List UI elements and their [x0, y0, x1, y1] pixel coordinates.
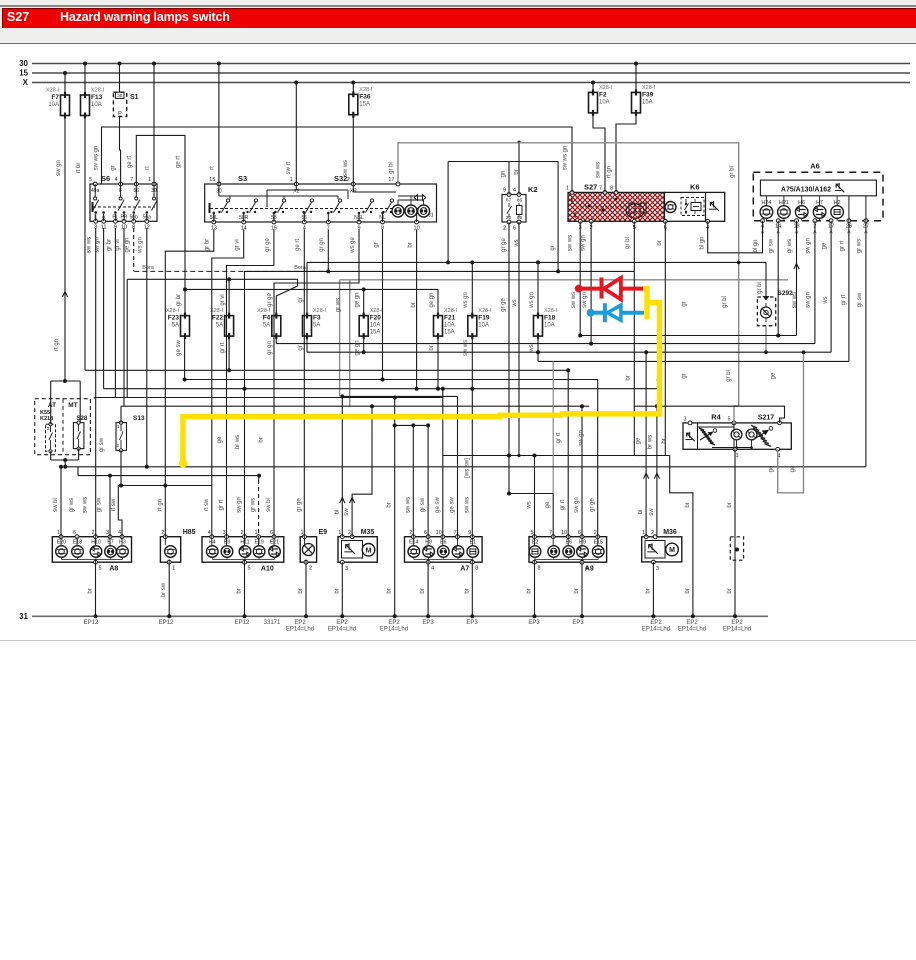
svg-text:ge: ge — [769, 465, 775, 472]
svg-text:1: 1 — [117, 424, 120, 429]
svg-text:br: br — [411, 302, 417, 307]
svg-text:6: 6 — [424, 530, 427, 536]
svg-text:ge gn: ge gn — [429, 292, 435, 307]
svg-text:br: br — [259, 437, 265, 442]
svg-text:3: 3 — [222, 530, 225, 536]
svg-text:ge: ge — [822, 242, 828, 249]
svg-text:M35: M35 — [361, 529, 375, 536]
svg-text:EP3: EP3 — [466, 620, 478, 626]
svg-text:F23: F23 — [168, 315, 180, 322]
svg-text:ws gn: ws gn — [529, 292, 535, 309]
svg-text:2: 2 — [91, 530, 94, 536]
svg-text:30: 30 — [19, 59, 28, 68]
svg-text:EP14=Lhd: EP14=Lhd — [380, 627, 408, 633]
svg-text:P: P — [118, 111, 122, 117]
svg-text:EP2: EP2 — [686, 620, 698, 626]
svg-text:bl gn: bl gn — [700, 236, 706, 249]
svg-text:sw: sw — [344, 508, 350, 516]
svg-text:sw: sw — [649, 508, 655, 516]
svg-text:EP3: EP3 — [528, 620, 540, 626]
svg-text:rt br: rt br — [76, 163, 82, 174]
svg-text:sw rt: sw rt — [286, 161, 292, 174]
svg-text:sw ws gn: sw ws gn — [563, 146, 569, 171]
svg-text:gr ws: gr ws — [69, 498, 75, 512]
svg-text:10: 10 — [561, 530, 567, 536]
svg-text:2: 2 — [503, 226, 506, 232]
svg-text:E15: E15 — [594, 540, 603, 546]
svg-text:sw gn: sw gn — [805, 238, 811, 254]
svg-text:2: 2 — [347, 177, 350, 183]
svg-text:EP14=Lhd: EP14=Lhd — [328, 627, 356, 633]
svg-text:M: M — [669, 547, 675, 554]
svg-text:ge rt: ge rt — [176, 156, 182, 168]
svg-text:sw ws: sw ws — [82, 497, 88, 513]
svg-text:A6: A6 — [810, 162, 820, 171]
svg-text:2: 2 — [348, 530, 351, 536]
svg-text:87: 87 — [506, 198, 512, 204]
svg-text:gr ge: gr ge — [501, 298, 507, 312]
svg-text:X28-I: X28-I — [46, 88, 60, 94]
svg-text:33171: 33171 — [264, 620, 281, 626]
svg-text:15A: 15A — [370, 330, 381, 336]
svg-text:X28-I: X28-I — [370, 308, 384, 314]
svg-text:br: br — [645, 588, 651, 593]
svg-text:gr: gr — [298, 345, 304, 350]
svg-text:gr bl: gr bl — [722, 296, 728, 308]
svg-text:gn: gn — [501, 171, 507, 178]
svg-text:4: 4 — [115, 177, 118, 183]
svg-text:sw ws: sw ws — [343, 160, 349, 176]
svg-text:31: 31 — [428, 213, 434, 219]
svg-text:Bora: Bora — [294, 265, 307, 271]
svg-text:EP12: EP12 — [159, 620, 174, 626]
svg-text:br: br — [685, 588, 691, 593]
svg-text:2: 2 — [651, 530, 654, 536]
svg-text:5: 5 — [99, 566, 102, 572]
svg-text:gr sw: gr sw — [769, 238, 775, 253]
svg-text:sw ws: sw ws — [87, 237, 93, 253]
svg-text:sw gn: sw gn — [237, 497, 243, 513]
svg-text:10A: 10A — [599, 99, 610, 105]
svg-text:gr br: gr br — [205, 239, 211, 251]
svg-text:15: 15 — [19, 69, 28, 78]
svg-text:ws: ws — [514, 239, 520, 247]
svg-text:A7: A7 — [460, 566, 469, 573]
svg-text:9: 9 — [503, 188, 506, 194]
svg-text:2: 2 — [161, 530, 164, 536]
svg-text:gr: gr — [550, 245, 556, 250]
svg-text:sw bl: sw bl — [266, 498, 272, 512]
svg-text:EP14=Lhd: EP14=Lhd — [642, 627, 670, 633]
svg-text:ws: ws — [823, 296, 829, 304]
svg-text:H4: H4 — [209, 540, 216, 546]
svg-text:ge: ge — [217, 436, 223, 443]
svg-text:br: br — [685, 502, 691, 507]
svg-text:ge: ge — [636, 437, 642, 444]
svg-text:9: 9 — [468, 530, 471, 536]
svg-text:gr vi: gr vi — [220, 294, 226, 305]
svg-text:sw gn: sw gn — [582, 292, 588, 308]
svg-text:1: 1 — [148, 177, 151, 183]
svg-text:br: br — [237, 588, 243, 593]
svg-text:10A: 10A — [91, 102, 102, 108]
svg-text:rt: rt — [145, 166, 151, 170]
svg-text:4: 4 — [431, 566, 434, 572]
svg-text:M36: M36 — [663, 529, 677, 536]
svg-text:gr sw: gr sw — [857, 292, 863, 307]
svg-text:rt sw: rt sw — [204, 498, 210, 511]
svg-text:br: br — [334, 588, 340, 593]
svg-text:ws gn: ws gn — [138, 237, 144, 254]
svg-text:gr br: gr br — [176, 294, 182, 306]
svg-text:br: br — [625, 375, 631, 380]
svg-text:gr sw: gr sw — [97, 497, 103, 512]
svg-text:gr bl: gr bl — [389, 162, 395, 174]
svg-text:gr ws: gr ws — [787, 239, 793, 253]
svg-text:5A: 5A — [313, 323, 320, 329]
svg-text:ws: ws — [529, 344, 535, 352]
svg-text:gr sw: gr sw — [99, 437, 105, 452]
svg-text:8: 8 — [610, 186, 613, 192]
svg-text:sw ws: sw ws — [792, 292, 798, 308]
svg-text:K6: K6 — [690, 183, 700, 192]
svg-text:gr ge: gr ge — [501, 238, 507, 252]
svg-text:br: br — [387, 588, 393, 593]
svg-text:br: br — [387, 502, 393, 507]
svg-text:H3: H3 — [119, 540, 126, 546]
svg-text:MT: MT — [68, 402, 77, 409]
svg-text:10A: 10A — [544, 323, 555, 329]
svg-text:3: 3 — [345, 566, 348, 572]
svg-text:sw ws: sw ws — [596, 162, 602, 178]
svg-text:7: 7 — [549, 530, 552, 536]
svg-text:2: 2 — [117, 443, 120, 448]
svg-text:sw ws: sw ws — [571, 292, 577, 308]
svg-text:E2: E2 — [532, 540, 538, 546]
svg-text:bl: bl — [638, 510, 644, 515]
svg-text:sw gn: sw gn — [574, 497, 580, 513]
svg-text:6: 6 — [73, 530, 76, 536]
svg-text:S13: S13 — [133, 415, 145, 422]
svg-text:EP3: EP3 — [572, 620, 584, 626]
svg-text:gr sw: gr sw — [420, 497, 426, 512]
svg-text:ws: ws — [527, 501, 533, 509]
svg-text:gr rt: gr rt — [841, 294, 847, 305]
svg-text:ge sw: ge sw — [435, 497, 441, 513]
svg-text:10A: 10A — [48, 102, 59, 108]
svg-text:S27: S27 — [584, 183, 597, 192]
svg-text:sw ws gn: sw ws gn — [94, 146, 100, 171]
svg-text:F19: F19 — [478, 315, 490, 322]
svg-text:X28-I: X28-I — [257, 308, 271, 314]
svg-text:gr: gr — [681, 373, 687, 378]
svg-text:br: br — [574, 588, 580, 593]
svg-text:F20: F20 — [370, 315, 382, 322]
svg-text:EP2: EP2 — [336, 620, 348, 626]
svg-text:EP2: EP2 — [388, 620, 400, 626]
svg-text:F7: F7 — [51, 94, 59, 101]
svg-text:br: br — [420, 588, 426, 593]
svg-text:gr ws: gr ws — [856, 239, 862, 253]
svg-text:H8: H8 — [425, 540, 432, 546]
svg-text:1: 1 — [338, 530, 341, 536]
svg-text:17: 17 — [388, 177, 394, 183]
svg-text:3: 3 — [106, 530, 109, 536]
svg-text:gr ge: gr ge — [590, 498, 596, 512]
svg-text:sw gn: sw gn — [578, 430, 584, 446]
svg-text:K2: K2 — [528, 185, 538, 194]
svg-text:H10: H10 — [91, 540, 101, 546]
svg-text:E18: E18 — [73, 540, 82, 546]
svg-text:10A: 10A — [370, 323, 381, 329]
svg-text:31: 31 — [19, 612, 28, 621]
svg-text:F4: F4 — [263, 315, 271, 322]
svg-text:3: 3 — [683, 417, 686, 423]
svg-text:br: br — [527, 588, 533, 593]
svg-text:2: 2 — [594, 530, 597, 536]
svg-text:A10: A10 — [261, 566, 274, 573]
svg-text:1: 1 — [642, 530, 645, 536]
svg-text:F39: F39 — [642, 91, 654, 98]
svg-text:5A: 5A — [263, 323, 270, 329]
svg-text:br: br — [514, 169, 520, 174]
svg-text:br: br — [88, 588, 94, 593]
svg-text:5: 5 — [248, 566, 251, 572]
svg-text:sw ws: sw ws — [463, 340, 469, 356]
svg-text:Bora: Bora — [142, 265, 155, 271]
svg-text:gr ws: gr ws — [336, 298, 342, 312]
svg-text:4: 4 — [118, 530, 121, 536]
svg-text:E20: E20 — [57, 540, 66, 546]
svg-text:1: 1 — [300, 530, 303, 536]
svg-text:ws gn: ws gn — [463, 292, 469, 309]
svg-text:8: 8 — [475, 566, 478, 572]
svg-text:AT: AT — [48, 402, 56, 409]
svg-text:br sw: br sw — [161, 582, 167, 597]
svg-text:6: 6 — [513, 226, 516, 232]
svg-text:X28-I: X28-I — [359, 87, 373, 93]
svg-text:5A: 5A — [172, 323, 179, 329]
svg-text:rt gn: rt gn — [54, 339, 60, 351]
svg-text:A8: A8 — [109, 566, 118, 573]
svg-text:5: 5 — [89, 177, 92, 183]
svg-text:F3: F3 — [313, 315, 321, 322]
svg-text:10A: 10A — [444, 323, 455, 329]
svg-text:8: 8 — [538, 566, 541, 572]
svg-text:4: 4 — [513, 188, 516, 194]
svg-text:EP12: EP12 — [235, 620, 250, 626]
svg-text:X28-I: X28-I — [599, 85, 613, 91]
svg-text:F36: F36 — [359, 93, 371, 100]
svg-text:rt: rt — [209, 166, 215, 170]
svg-text:ge: ge — [545, 501, 551, 508]
svg-text:ge gn: ge gn — [355, 292, 361, 307]
svg-text:ge gn: ge gn — [125, 237, 131, 252]
svg-text:sw gn: sw gn — [806, 292, 812, 308]
svg-text:7: 7 — [130, 177, 133, 183]
svg-text:X28-I: X28-I — [478, 308, 492, 314]
svg-text:rt gn: rt gn — [607, 166, 613, 178]
svg-text:gr bl: gr bl — [625, 237, 631, 249]
svg-text:gr bl: gr bl — [730, 166, 736, 178]
svg-text:E7: E7 — [107, 540, 113, 546]
svg-text:A75/A130/A162: A75/A130/A162 — [781, 186, 831, 193]
svg-text:S3: S3 — [238, 174, 247, 183]
svg-text:EP14=Lhd: EP14=Lhd — [723, 627, 751, 633]
svg-text:EP2: EP2 — [650, 620, 662, 626]
svg-text:5: 5 — [530, 530, 533, 536]
svg-text:br: br — [662, 438, 668, 443]
svg-text:sw gn: sw gn — [56, 160, 62, 176]
svg-text:1: 1 — [255, 530, 258, 536]
svg-text:rt gn: rt gn — [157, 499, 163, 511]
svg-text:gr bl: gr bl — [726, 370, 732, 382]
svg-text:F21: F21 — [444, 315, 456, 322]
svg-text:F22: F22 — [212, 315, 224, 322]
svg-text:gr bl: gr bl — [757, 282, 763, 294]
svg-text:A9: A9 — [585, 566, 594, 573]
svg-text:5A: 5A — [216, 323, 223, 329]
svg-text:EP14=Lhd: EP14=Lhd — [678, 627, 706, 633]
svg-text:5: 5 — [727, 417, 730, 423]
svg-text:ge: ge — [771, 372, 777, 379]
svg-text:1: 1 — [290, 177, 293, 183]
svg-text:gr rt: gr rt — [219, 499, 225, 510]
svg-text:gr rt: gr rt — [556, 432, 562, 443]
svg-text:X28-I: X28-I — [642, 85, 656, 91]
svg-text:br: br — [464, 588, 470, 593]
svg-text:sw gn: sw gn — [580, 235, 586, 251]
svg-text:S217: S217 — [758, 415, 774, 422]
svg-text:15A: 15A — [642, 99, 653, 105]
svg-text:br: br — [727, 502, 733, 507]
svg-text:sw gn: sw gn — [95, 237, 101, 253]
svg-text:gr ge: gr ge — [265, 238, 271, 252]
svg-text:E6: E6 — [440, 540, 446, 546]
svg-text:E6: E6 — [566, 540, 572, 546]
svg-text:2: 2 — [409, 530, 412, 536]
svg-text:E1: E1 — [470, 540, 476, 546]
svg-text:sw ws: sw ws — [405, 497, 411, 513]
svg-text:15A: 15A — [359, 101, 370, 107]
svg-text:ws ge: ws ge — [350, 237, 356, 254]
svg-text:ws: ws — [512, 299, 518, 307]
svg-text:[ws sw]: [ws sw] — [464, 458, 470, 478]
svg-text:EP2: EP2 — [294, 620, 306, 626]
svg-text:br: br — [727, 588, 733, 593]
svg-text:br: br — [429, 345, 435, 350]
svg-text:ge sw: ge sw — [176, 340, 182, 356]
svg-text:1: 1 — [735, 453, 738, 459]
svg-text:gr gn: gr gn — [267, 341, 273, 355]
svg-text:X: X — [23, 78, 29, 87]
svg-text:S292: S292 — [778, 290, 794, 297]
svg-text:X28-I: X28-I — [313, 308, 327, 314]
svg-text:1: 1 — [57, 530, 60, 536]
svg-text:br: br — [408, 242, 414, 247]
svg-text:4: 4 — [208, 530, 211, 536]
svg-text:ge sw: ge sw — [450, 497, 456, 513]
svg-text:15A: 15A — [444, 330, 455, 336]
svg-text:gr ws: gr ws — [251, 498, 257, 512]
svg-text:bl gn: bl gn — [753, 239, 759, 252]
svg-text:gr: gr — [681, 301, 687, 306]
svg-text:E21: E21 — [270, 540, 279, 546]
svg-text:F18: F18 — [544, 315, 556, 322]
svg-text:gr rt: gr rt — [220, 342, 226, 353]
svg-text:ge rt: ge rt — [127, 156, 133, 168]
svg-text:E9: E9 — [319, 529, 328, 536]
svg-text:E19: E19 — [254, 540, 263, 546]
svg-text:X28-I: X28-I — [91, 88, 105, 94]
svg-text:S1: S1 — [130, 94, 139, 101]
svg-text:gr rt: gr rt — [560, 499, 566, 510]
svg-text:E14: E14 — [409, 540, 418, 546]
svg-text:H85: H85 — [183, 529, 196, 536]
svg-text:gr gn: gr gn — [319, 238, 325, 252]
svg-text:ge rt: ge rt — [295, 239, 301, 251]
svg-text:F2: F2 — [599, 91, 607, 98]
svg-text:gr: gr — [373, 242, 379, 247]
svg-text:7: 7 — [453, 530, 456, 536]
svg-text:X28-I: X28-I — [544, 308, 558, 314]
svg-text:X28-I: X28-I — [444, 308, 458, 314]
svg-text:EP2: EP2 — [731, 620, 743, 626]
svg-text:10: 10 — [436, 530, 442, 536]
svg-text:sw ws: sw ws — [464, 497, 470, 513]
svg-text:bl: bl — [334, 510, 340, 515]
svg-text:6: 6 — [578, 530, 581, 536]
svg-text:X28-I: X28-I — [166, 308, 180, 314]
svg-text:gr ge: gr ge — [296, 498, 302, 512]
svg-text:rt sw: rt sw — [111, 498, 117, 511]
svg-text:10A: 10A — [478, 323, 489, 329]
svg-text:1: 1 — [172, 566, 175, 572]
svg-text:br: br — [657, 240, 663, 245]
svg-text:gr vi: gr vi — [115, 239, 121, 250]
svg-text:2: 2 — [309, 566, 312, 572]
svg-text:sw ws: sw ws — [567, 235, 573, 251]
svg-text:gr: gr — [111, 165, 117, 170]
svg-text:30: 30 — [117, 93, 123, 98]
svg-text:1: 1 — [566, 186, 569, 192]
svg-text:gr ge: gr ge — [267, 293, 273, 307]
svg-text:EP14=Lhd: EP14=Lhd — [286, 627, 314, 633]
svg-text:6: 6 — [270, 530, 273, 536]
svg-text:br ws: br ws — [235, 435, 241, 449]
svg-text:H11: H11 — [240, 540, 249, 546]
svg-text:br ws: br ws — [648, 435, 654, 449]
svg-text:ge gn: ge gn — [355, 340, 361, 355]
svg-text:R4: R4 — [711, 413, 721, 422]
svg-text:3: 3 — [656, 566, 659, 572]
svg-text:E8: E8 — [224, 540, 230, 546]
svg-text:gr br: gr br — [106, 239, 112, 251]
svg-text:gr: gr — [298, 297, 304, 302]
svg-text:2: 2 — [240, 530, 243, 536]
svg-text:sw bl: sw bl — [53, 498, 59, 512]
svg-text:ge: ge — [790, 465, 796, 472]
svg-text:EP3: EP3 — [422, 620, 434, 626]
svg-text:EP12: EP12 — [84, 620, 99, 626]
svg-text:F13: F13 — [91, 94, 103, 101]
svg-text:15: 15 — [209, 177, 215, 183]
svg-text:gr vi: gr vi — [235, 239, 241, 250]
svg-text:M: M — [366, 547, 372, 554]
svg-text:gr rt: gr rt — [839, 240, 845, 251]
svg-text:H9: H9 — [579, 540, 586, 546]
svg-text:7: 7 — [599, 186, 602, 192]
